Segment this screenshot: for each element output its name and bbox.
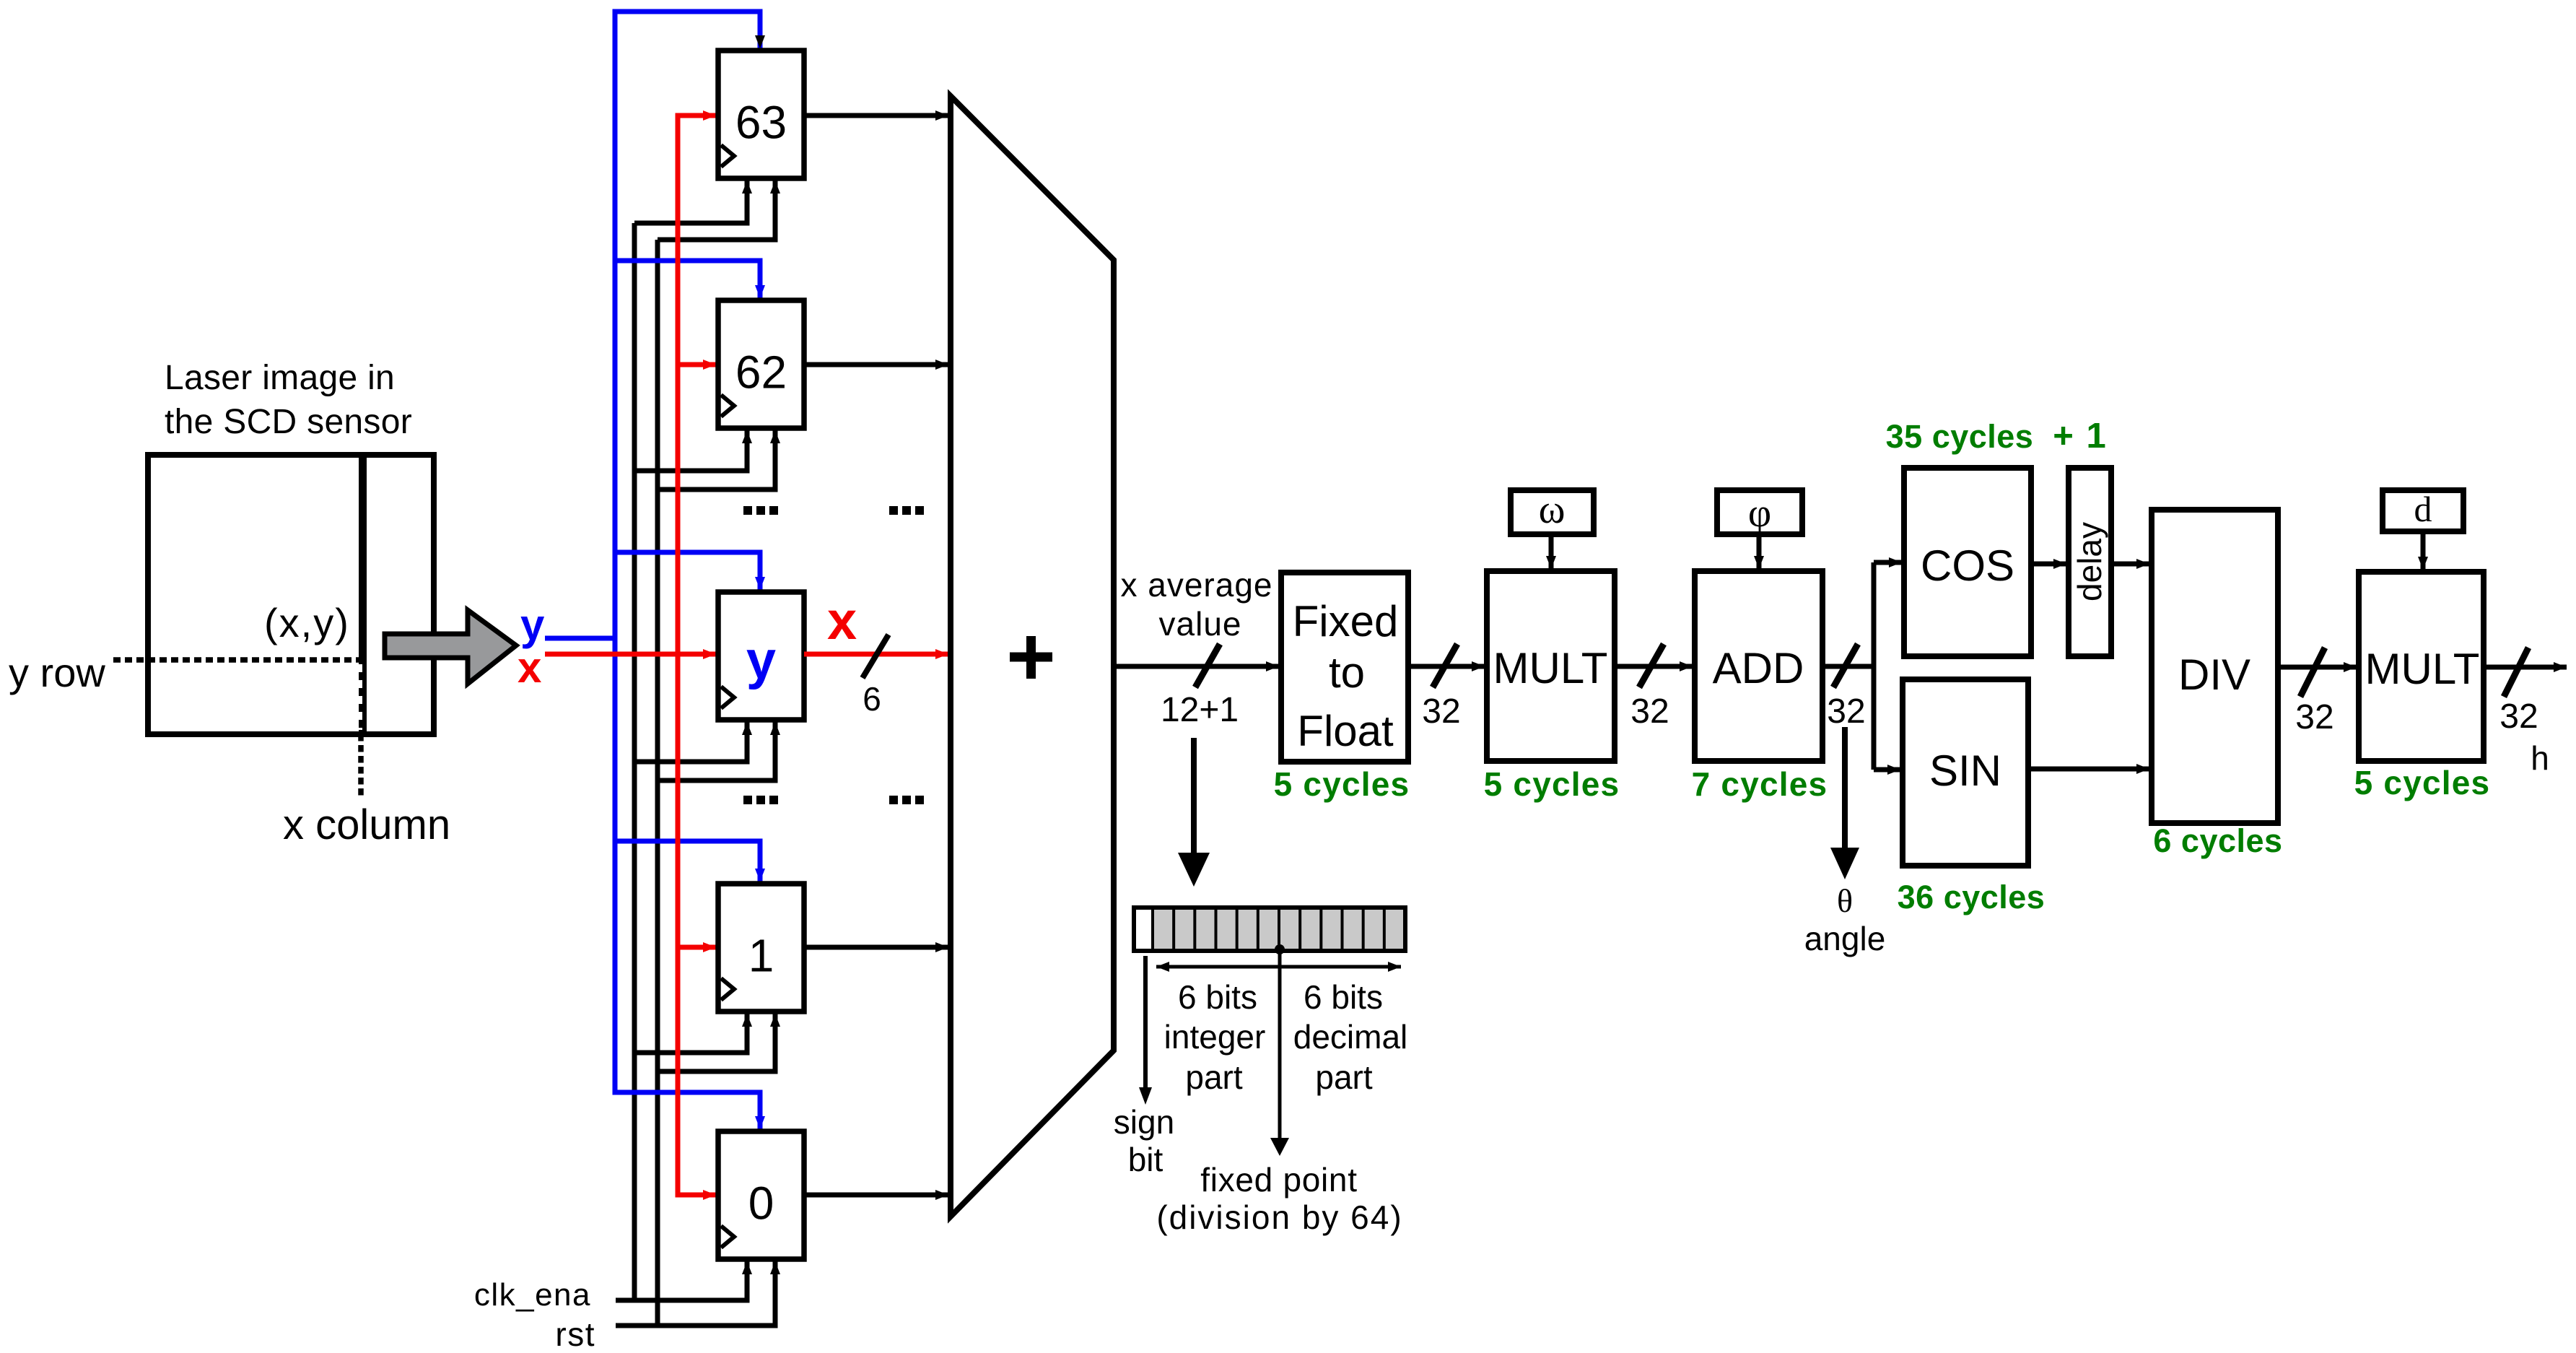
svg-text:fixed point: fixed point: [1200, 1161, 1357, 1198]
svg-text:6 bits: 6 bits: [1304, 978, 1383, 1016]
svg-text:5 cycles: 5 cycles: [2354, 764, 2491, 801]
svg-text:DIV: DIV: [2178, 651, 2250, 699]
svg-text:part: part: [1315, 1058, 1372, 1096]
svg-text:5 cycles: 5 cycles: [1274, 765, 1410, 803]
svg-text:7 cycles: 7 cycles: [1692, 765, 1828, 803]
svg-text:MULT: MULT: [2365, 645, 2480, 693]
svg-text:x column: x column: [283, 801, 450, 848]
svg-text:62: 62: [735, 347, 787, 399]
svg-text:y row: y row: [9, 650, 105, 695]
svg-text:+ 1: + 1: [2053, 417, 2107, 456]
svg-text:φ: φ: [1748, 491, 1771, 536]
svg-text:1: 1: [748, 930, 774, 982]
svg-text:value: value: [1159, 605, 1242, 643]
svg-text:θ: θ: [1837, 882, 1853, 919]
svg-text:6: 6: [863, 680, 881, 718]
svg-text:x average: x average: [1120, 566, 1272, 604]
svg-text:6 cycles: 6 cycles: [2153, 822, 2282, 859]
svg-text:rst: rst: [555, 1315, 595, 1353]
svg-text:6 bits: 6 bits: [1178, 978, 1257, 1016]
svg-text:(x,y): (x,y): [264, 600, 350, 645]
svg-text:36 cycles: 36 cycles: [1898, 879, 2045, 915]
svg-text:the SCD sensor: the SCD sensor: [165, 403, 412, 441]
svg-text:ω: ω: [1539, 487, 1566, 532]
svg-text:delay: delay: [2071, 522, 2108, 601]
svg-text:32: 32: [2499, 697, 2538, 736]
svg-text:12+1: 12+1: [1161, 691, 1239, 729]
svg-text:h: h: [2531, 739, 2549, 777]
svg-text:y: y: [520, 601, 545, 649]
svg-text:decimal: decimal: [1293, 1018, 1408, 1056]
svg-text:y: y: [746, 630, 776, 690]
svg-text:SIN: SIN: [1929, 747, 2001, 795]
svg-text:Float: Float: [1297, 707, 1394, 755]
svg-text:x: x: [827, 591, 857, 651]
svg-text:x: x: [518, 643, 541, 692]
svg-text:32: 32: [1630, 692, 1669, 731]
svg-text:63: 63: [735, 97, 787, 149]
svg-text:0: 0: [748, 1178, 774, 1230]
svg-text:clk_ena: clk_ena: [474, 1277, 591, 1313]
svg-text:bit: bit: [1128, 1141, 1163, 1178]
svg-text:integer: integer: [1164, 1018, 1266, 1056]
svg-text:Fixed: Fixed: [1293, 597, 1399, 645]
svg-text:5 cycles: 5 cycles: [1484, 765, 1620, 803]
svg-text:(division by 64): (division by 64): [1156, 1198, 1402, 1236]
svg-text:MULT: MULT: [1493, 644, 1608, 692]
svg-text:COS: COS: [1921, 541, 2014, 590]
svg-text:d: d: [2414, 489, 2432, 529]
svg-text:Laser image in: Laser image in: [165, 359, 395, 397]
svg-text:32: 32: [1827, 692, 1865, 731]
svg-text:35 cycles: 35 cycles: [1886, 418, 2034, 455]
svg-text:32: 32: [2295, 698, 2333, 736]
svg-text:part: part: [1185, 1058, 1242, 1096]
svg-text:ADD: ADD: [1713, 644, 1804, 692]
svg-text:sign: sign: [1114, 1103, 1174, 1141]
svg-text:angle: angle: [1804, 920, 1886, 957]
svg-text:to: to: [1329, 648, 1365, 697]
svg-text:32: 32: [1422, 692, 1460, 731]
